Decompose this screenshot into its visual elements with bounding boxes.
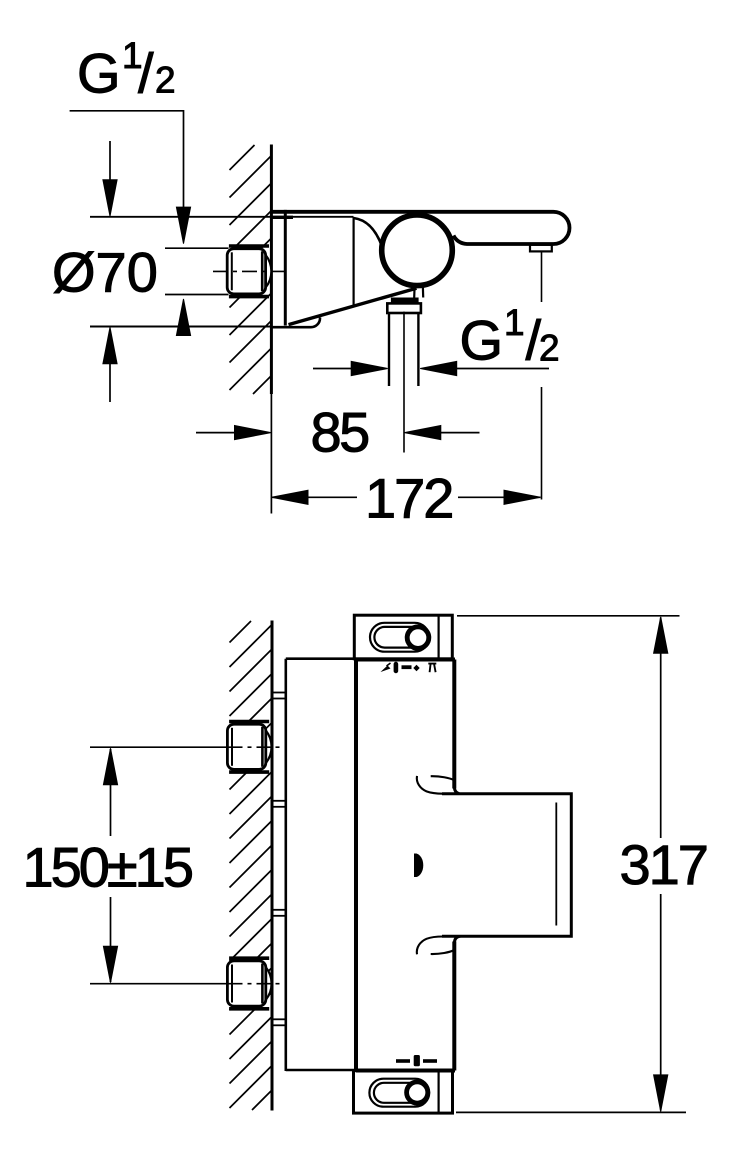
aerator extension line (x=541.5) <box>541 253 543 500</box>
wall union fitting lower (front view) <box>227 958 271 1009</box>
pipe centerline <box>403 312 405 453</box>
svg-text:G: G <box>460 309 504 372</box>
leader line from G 1/2 label <box>70 111 184 210</box>
svg-text:1: 1 <box>504 302 525 343</box>
fitting lower centerline dash-dot <box>229 983 287 985</box>
shower outlet pipe <box>389 313 418 386</box>
spout aerator nub <box>530 245 552 252</box>
svg-text:G: G <box>77 42 121 105</box>
dimension 172 <box>272 467 541 530</box>
faucet escutcheon front face (side view) <box>284 210 287 326</box>
top cap (front view) <box>354 615 452 659</box>
svg-text:Ø70: Ø70 <box>52 241 158 304</box>
extension line escutcheon bottom y=326.5 <box>90 326 272 328</box>
dimension G 1/2 pipe arrows <box>313 361 549 375</box>
bottom cap (front view) <box>354 1071 453 1113</box>
text Ø70 <box>52 241 158 304</box>
escutcheon right edge (side view) <box>353 217 355 306</box>
label G 1/2 (pipe) <box>460 302 560 372</box>
spout block inner line <box>555 803 557 926</box>
wall mounting tab 1 <box>272 693 286 699</box>
wall union fitting upper (front view) <box>227 722 271 773</box>
extension line fitting top y=248 <box>165 247 229 249</box>
body outline (front view) <box>356 660 455 1071</box>
dimension arrow down (escutcheon top, x=110) <box>103 141 117 216</box>
wall mounting tab 2 <box>272 801 286 807</box>
spout block step (front view) <box>442 786 571 944</box>
svg-text:2: 2 <box>539 328 560 369</box>
dimension arrow up (escutcheon bottom, x=110) <box>103 327 117 402</box>
dimension 85 <box>196 400 480 463</box>
label G 1/2 (wall union, top left) <box>77 35 176 105</box>
arrow down G1/2 fitting top (x=183.5) <box>176 207 190 244</box>
shower outlet collar <box>387 300 421 313</box>
wall mounting tab 4 <box>272 1019 286 1025</box>
spout wing top <box>417 776 454 794</box>
bottom cap slot pill <box>369 1079 429 1107</box>
back plate (front view) <box>286 659 356 1071</box>
svg-text:150±15: 150±15 <box>23 836 192 899</box>
thermostat knob circle (side view) <box>382 215 453 286</box>
escutcheon-to-body transition curve <box>354 218 382 247</box>
wall hatching (top view) <box>230 145 272 394</box>
wall hatching (front view) <box>230 621 272 1110</box>
wall edge line (top view) <box>270 145 273 514</box>
arrow up G1/2 fitting bottom (x=183.5) <box>176 299 190 336</box>
wall mounting tab 3 <box>272 910 286 916</box>
svg-text:85: 85 <box>311 400 369 463</box>
bottom cap knob circle <box>407 1082 428 1103</box>
neck below knob <box>414 285 423 298</box>
control icons below top cap <box>381 662 437 673</box>
escutcheon bottom slant edge <box>289 288 417 324</box>
spout wing bottom <box>417 936 454 954</box>
svg-text:172: 172 <box>365 467 452 530</box>
logo blob on body <box>414 854 423 878</box>
extension line escutcheon top y=217 <box>90 216 354 219</box>
top cap slot pill <box>370 623 429 652</box>
fitting centerline dash-dot (top view) <box>213 270 286 272</box>
svg-text:2: 2 <box>155 60 176 101</box>
wall edge line (front view) <box>271 621 274 1111</box>
svg-text:/: / <box>138 42 154 105</box>
top cap knob circle <box>407 627 429 649</box>
dimension 317 <box>456 616 707 1113</box>
svg-text:317: 317 <box>620 833 707 896</box>
wall union fitting (top view) <box>227 246 271 297</box>
fitting upper centerline dash-dot <box>229 746 287 748</box>
faucet top edge / spout outline (side view) <box>272 212 570 244</box>
dimension 150±15 <box>23 747 229 984</box>
escutcheon bottom foot <box>272 318 321 328</box>
icon above bottom cap <box>396 1055 437 1066</box>
extension line fitting bottom y=294.5 <box>165 294 229 296</box>
